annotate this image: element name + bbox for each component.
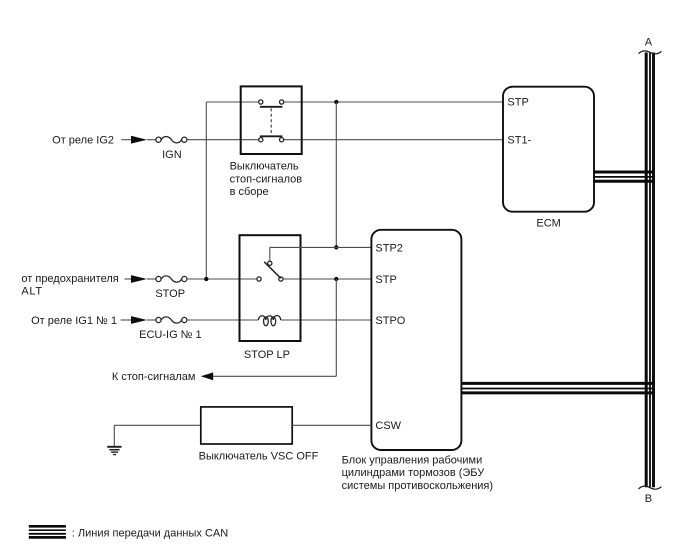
wire: arrow to fuse STOP <box>147 278 156 280</box>
ECU box (brake actuator) <box>371 230 461 450</box>
svg-text:в сборе: в сборе <box>230 186 269 198</box>
label от предохранителя ALT <box>21 273 118 298</box>
stop light switch assembly box <box>241 86 302 154</box>
bus break top <box>639 51 662 54</box>
svg-text:системы противоскольжения): системы противоскольжения) <box>342 480 493 492</box>
svg-text:цилиндрами тормозов (ЭБУ: цилиндрами тормозов (ЭБУ <box>342 467 486 479</box>
wire: switch to ECM ST1- <box>284 139 503 141</box>
wire: vertical to STP node <box>335 279 337 376</box>
wire: ground to VSC OFF switch <box>114 424 201 426</box>
fuse IGN <box>156 137 187 143</box>
arrow into IGN fuse <box>131 136 147 144</box>
svg-text:стоп-сигналов: стоп-сигналов <box>230 173 303 185</box>
wire: left vertical riser <box>205 102 207 279</box>
svg-text:STP2: STP2 <box>375 242 403 254</box>
svg-text:STOP: STOP <box>155 288 185 300</box>
node: junction STP <box>334 277 338 281</box>
arrow into ECU-IG fuse <box>131 316 147 324</box>
svg-text:IGN: IGN <box>162 149 182 161</box>
svg-text:ECU-IG № 1: ECU-IG № 1 <box>139 329 202 341</box>
node: junction STP2 <box>334 245 338 249</box>
wire: От реле IG2 lead-in <box>121 139 132 141</box>
svg-text:B: B <box>645 493 652 505</box>
ground <box>107 447 121 455</box>
switch contacts bottom row <box>259 138 284 142</box>
CAN link ECU to bus <box>461 383 655 393</box>
svg-text:: Линия передачи данных CAN: : Линия передачи данных CAN <box>72 528 228 540</box>
svg-text:ECM: ECM <box>536 218 560 230</box>
svg-text:Выключатель VSC OFF: Выключатель VSC OFF <box>199 451 319 463</box>
bus break bottom <box>639 486 662 489</box>
wire: fuse IGN to switch contact <box>187 139 259 141</box>
wire: upper contact to STP2 run <box>269 247 271 261</box>
wire: STOP LP to ECU STP <box>283 278 371 280</box>
wire: К стоп-сигналам run <box>213 375 336 377</box>
relay contact circles <box>257 261 283 281</box>
CAN bus trunk <box>646 53 653 488</box>
mechanical link (dashed) <box>270 108 272 135</box>
wire: arrow to fuse ECU-IG <box>147 319 156 321</box>
switch contacts top row <box>259 100 284 104</box>
svg-text:ST1-: ST1- <box>507 134 531 146</box>
legend CAN symbol <box>29 526 66 537</box>
wire: coil to ECU STPO <box>281 319 372 321</box>
arrow К стоп-сигналам <box>201 372 213 380</box>
svg-text:CSW: CSW <box>375 420 401 432</box>
contact bar top <box>260 106 283 108</box>
svg-text:От реле IG2: От реле IG2 <box>52 135 114 147</box>
wire: fuse to relay coil <box>187 319 259 321</box>
arrow into STOP fuse <box>131 275 147 283</box>
wire: arrow to fuse IGN <box>147 139 156 141</box>
svg-text:от предохранителя: от предохранителя <box>21 273 118 285</box>
label Выключатель стоп-сигналов в сборе <box>230 161 303 199</box>
wire: top STP run <box>206 101 258 103</box>
svg-text:STP: STP <box>375 274 396 286</box>
wire: VSC OFF to ECU CSW <box>292 424 371 426</box>
svg-text:От реле IG1 № 1: От реле IG1 № 1 <box>31 315 117 327</box>
svg-text:STOP LP: STOP LP <box>244 349 290 361</box>
contact bar bottom <box>260 135 283 137</box>
STOP LP relay box <box>240 235 301 341</box>
fuse STOP <box>156 276 187 282</box>
wire: vertical STP to STP2 <box>335 102 337 247</box>
fuse ECU-IG № 1 <box>156 317 187 323</box>
ECM box U1 <box>503 87 594 212</box>
svg-text:Блок управления рабочими: Блок управления рабочими <box>342 454 483 466</box>
wire: fuse STOP to STOP LP <box>187 278 257 280</box>
svg-text:Выключатель: Выключатель <box>230 161 299 173</box>
wire: От реле IG1 lead-in <box>121 319 132 321</box>
svg-text:A: A <box>645 36 653 48</box>
svg-text:STP: STP <box>507 97 528 109</box>
svg-text:STPO: STPO <box>375 315 405 327</box>
node: junction top STP <box>334 100 338 104</box>
VSC OFF switch box <box>201 407 292 444</box>
label Блок управления <box>342 454 493 492</box>
svg-text:ALT: ALT <box>21 286 42 298</box>
relay coil L1 <box>258 315 280 325</box>
relay switch arm <box>264 262 281 279</box>
wire: от предохранителя ALT lead-in <box>125 278 133 280</box>
CAN link ECM to bus <box>594 172 655 181</box>
svg-text:К стоп-сигналам: К стоп-сигналам <box>112 371 196 383</box>
node: junction riser/STOP <box>204 277 208 281</box>
